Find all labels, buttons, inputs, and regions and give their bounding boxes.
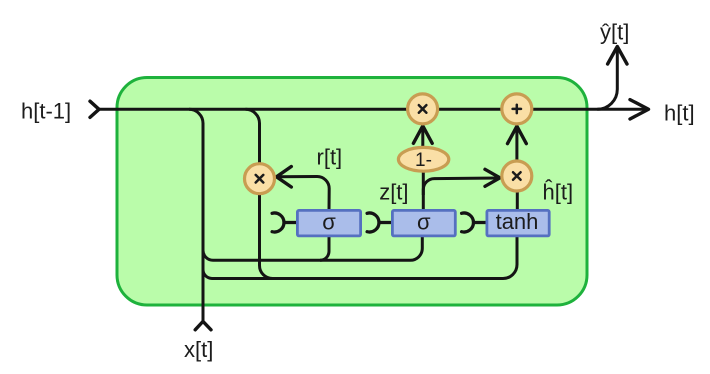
wire: lower bus 1 (to sigma-r and sigma-z bottoms)	[203, 236, 422, 260]
svg-text:ĥ[t]: ĥ[t]	[543, 179, 574, 204]
arrowhead: r[t] into reset multiply	[277, 167, 292, 188]
wire: reset multiply output joining bus 2	[260, 194, 273, 279]
reset multiply node (x)	[245, 164, 275, 194]
plus node on main line (+)	[502, 94, 532, 124]
tanh box	[487, 209, 549, 236]
arrowhead: h[t] output	[630, 100, 649, 119]
svg-text:ŷ[t]: ŷ[t]	[600, 20, 629, 45]
wire: z branch right into candidate multiply node	[423, 178, 499, 195]
wire: z column from sigma-z top up to 1- node	[422, 172, 425, 211]
sigma-z box	[392, 209, 455, 236]
concat symbol before sigma-r	[272, 213, 297, 232]
svg-text:x[t]: x[t]	[184, 337, 213, 362]
arrowhead: into plus node	[508, 126, 527, 143]
wire: main h line from h[t-1] to h[t]	[99, 108, 649, 111]
wire: second drop from main line into reset multiply node	[246, 109, 260, 163]
arrowhead: into main-line multiply	[413, 126, 432, 143]
arrowhead: z into candidate multiply	[485, 169, 500, 186]
cell body (GRU cell rounded rectangle)	[117, 78, 587, 306]
wire: candidate multiply up into plus node	[515, 126, 518, 160]
wire: y[t] branch up from main line	[597, 47, 617, 110]
concat symbol before tanh	[462, 213, 487, 232]
sigma-r box	[297, 209, 360, 236]
svg-text:σ: σ	[417, 209, 431, 234]
svg-text:tanh: tanh	[496, 209, 539, 234]
svg-text:z[t]: z[t]	[379, 180, 408, 205]
wire: branch of bus 1 up into sigma-r bottom	[320, 236, 329, 260]
wire: 1- node up into main-line multiply	[421, 126, 424, 147]
concat symbol before sigma-z	[367, 213, 392, 232]
1- node (ellipse)	[398, 147, 448, 171]
arrowhead: y[t] up	[608, 47, 627, 65]
arrowhead: x[t] input barb	[195, 321, 211, 329]
arrowhead: h[t-1] input barb	[90, 101, 99, 117]
svg-text:σ: σ	[322, 209, 336, 234]
wire: r[t] loop from sigma-r top into reset multiply node	[277, 177, 330, 211]
wire: lower bus 2 (to tanh bottom)	[203, 236, 517, 279]
svg-text:h[t]: h[t]	[664, 101, 695, 126]
wire: tanh top up into candidate multiply node	[516, 191, 519, 210]
svg-text:1-: 1-	[415, 150, 432, 171]
svg-text:r[t]: r[t]	[317, 145, 343, 170]
wire: left drop from main line down to x[t] entry	[189, 109, 203, 321]
multiply node on main line (x)	[408, 94, 438, 124]
svg-text:h[t-1]: h[t-1]	[21, 99, 71, 124]
candidate multiply node (x)	[502, 161, 532, 191]
